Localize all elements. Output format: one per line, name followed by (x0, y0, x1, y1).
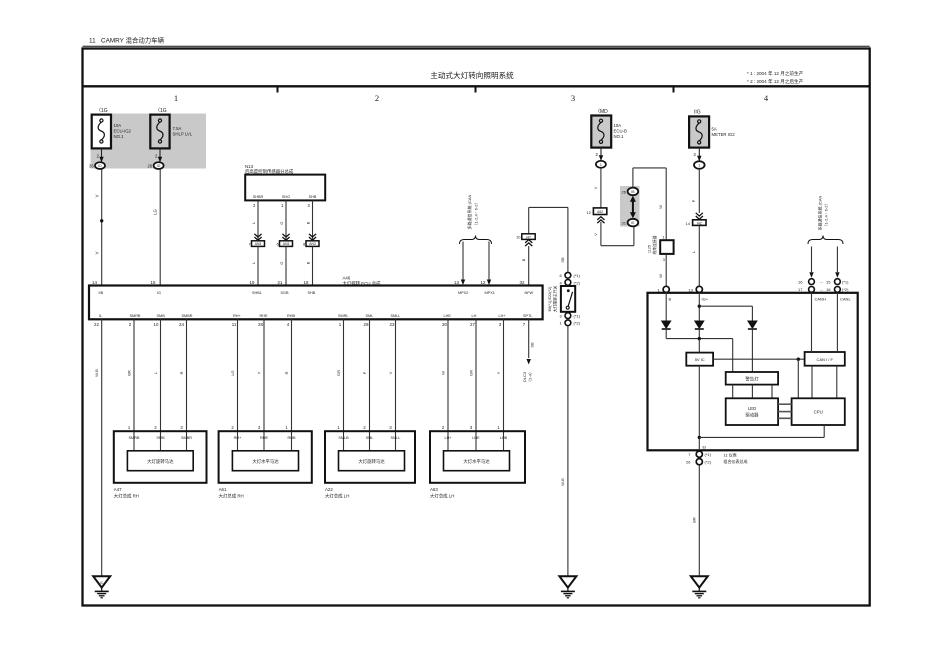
wire GR ECU pin 27 to level motor LH (469, 319, 477, 451)
CAN brace to A46 MPX pins (460, 194, 492, 244)
svg-text:大灯旋转马达: 大灯旋转马达 (147, 458, 174, 465)
LED driver block (726, 398, 778, 425)
connector 26(ID) (148, 162, 164, 169)
wire CAN arrow to MPX1 pin 12 (481, 242, 492, 286)
wire W-B ECU pin 22 to ground (94, 319, 102, 575)
svg-text:NO.1: NO.1 (614, 134, 625, 139)
fuse F3 ECU-B NO.1 (591, 109, 627, 148)
svg-text:22: 22 (94, 322, 99, 327)
svg-text:LHE: LHE (472, 436, 480, 440)
ECU A46 label (343, 276, 382, 288)
wire 5V IC to CAN I/F (713, 358, 805, 399)
svg-text:V: V (95, 251, 100, 254)
connector 1(IK) meter B (658, 286, 670, 292)
svg-text:Y: Y (496, 371, 501, 374)
svg-text:W: W (658, 274, 663, 278)
svg-text:10: 10 (154, 322, 159, 327)
connector 6 (*1) (560, 272, 581, 278)
wire B to diode 1 (665, 293, 667, 321)
svg-text:LH+: LH+ (444, 436, 452, 440)
connector 7(IL)(*1) below meter (688, 451, 711, 457)
svg-text:(*2): (*2) (574, 280, 581, 285)
svg-text:29: 29 (364, 322, 369, 327)
wire LG from ID to ECU pin 15 (151, 169, 161, 286)
svg-text:IL: IL (99, 314, 102, 318)
svg-text:(*2): (*2) (574, 321, 581, 326)
wire CANL into CAN I/F (836, 293, 838, 352)
combination meter box (648, 293, 858, 451)
lamp assy A61 RH leveling (219, 425, 312, 499)
lamp assy A47 RH swivel (114, 425, 207, 499)
svg-text:26: 26 (686, 460, 691, 465)
svg-text:LHB: LHB (500, 436, 508, 440)
svg-text:Y: Y (257, 371, 262, 374)
svg-text:大灯总成 RH: 大灯总成 RH (114, 492, 139, 499)
connector 36(ID) (89, 162, 105, 169)
wire NFW from ECU pin 32 up through I47 to switch (520, 207, 568, 285)
gray band IB-IE junction (620, 186, 640, 227)
svg-text:IC: IC (100, 581, 104, 585)
svg-text:GR: GR (469, 370, 474, 376)
svg-text:〈2-4〉: 〈2-4〉 (528, 370, 533, 384)
svg-text:RHB: RHB (287, 314, 295, 318)
CAN brace to meter (808, 195, 843, 244)
wire Y ECU pin 28 to level motor RH (257, 319, 265, 451)
svg-text:ECU-B: ECU-B (614, 129, 628, 134)
svg-text:AN3: AN3 (309, 242, 316, 246)
svg-text:11 CAMRY 混合动力车辆: 11 CAMRY 混合动力车辆 (89, 36, 165, 45)
wire N13 pin 3 to AN3 (305, 200, 316, 240)
svg-text:ID: ID (98, 164, 102, 168)
wire AN3 to ECU pin 21 (278, 246, 286, 285)
ECU bottom terminal labels (99, 314, 533, 318)
svg-text:* 2 : 2004 年 12 月之后生产: * 2 : 2004 年 12 月之后生产 (747, 78, 804, 85)
svg-text:21: 21 (278, 280, 283, 285)
svg-text:SMRB: SMRB (130, 314, 141, 318)
svg-text:大灯水平马达: 大灯水平马达 (463, 458, 490, 465)
svg-text:SPTL: SPTL (523, 314, 533, 318)
svg-text:驱动器: 驱动器 (746, 412, 760, 419)
svg-text:多路通信系统 (CAN: 多路通信系统 (CAN (817, 195, 823, 230)
wire R ECU pin 24 to lamp RH (179, 319, 187, 451)
svg-text:14: 14 (92, 280, 97, 285)
connector oval 1 col4 (694, 161, 705, 169)
svg-text:I42: I42 (697, 221, 702, 225)
svg-text:I47: I47 (526, 235, 531, 239)
svg-text:16: 16 (826, 287, 831, 292)
svg-text:主动式大灯转向照明系统: 主动式大灯转向照明系统 (430, 70, 514, 80)
svg-text:SGB: SGB (281, 291, 289, 295)
junction box 1125 (648, 235, 674, 254)
connector 7 AN3 (249, 241, 265, 247)
wire P ECU pin 29 to swivel motor LH (362, 319, 370, 451)
connector 3 (*1) below switch (560, 313, 581, 319)
svg-text:27: 27 (470, 322, 475, 327)
ground center (559, 576, 576, 598)
svg-text:SMBR: SMBR (181, 436, 192, 440)
svg-text:多路通信系统 (CAN: 多路通信系统 (CAN (466, 194, 472, 229)
svg-text:B: B (305, 261, 310, 264)
connector 6 AN3 (277, 241, 293, 247)
wire R ECU pin 4 to level motor RH (284, 319, 292, 451)
svg-text:SMRB: SMRB (129, 436, 140, 440)
svg-text:R: R (284, 371, 289, 374)
lamp assy A63 LH leveling (430, 425, 525, 499)
svg-text:SMLL: SMLL (391, 436, 401, 440)
connector 8 AN3 (303, 241, 319, 247)
wire fuse F2 pin 2 to connector ID (155, 148, 162, 162)
svg-text:组合仪表总成: 组合仪表总成 (724, 458, 748, 464)
svg-text:SMB: SMB (156, 436, 165, 440)
svg-text:P: P (691, 199, 696, 202)
svg-text:〈1-2,4・6-2〉: 〈1-2,4・6-2〉 (474, 201, 479, 228)
bus lines LED driver to CPU (778, 404, 792, 418)
svg-text:BR: BR (127, 370, 132, 376)
svg-text:大灯总成 LH: 大灯总成 LH (325, 492, 349, 499)
svg-text:16: 16 (798, 280, 803, 285)
svg-text:15: 15 (826, 280, 831, 285)
svg-text:A63: A63 (430, 487, 438, 492)
svg-text:1125: 1125 (648, 245, 652, 253)
svg-text:RHB: RHB (287, 436, 295, 440)
svg-text:W: W (658, 205, 663, 209)
svg-text:V: V (593, 233, 598, 236)
ECU top terminal labels (99, 291, 534, 295)
wire GR ECU pin 1 to swivel motor LH (336, 319, 344, 451)
svg-text:SML: SML (366, 436, 374, 440)
wire BR ECU pin 2 to lamp RH (127, 319, 135, 451)
svg-text:W-B: W-B (560, 478, 565, 486)
svg-text:(*2): (*2) (705, 460, 712, 465)
svg-text:CPU: CPU (814, 410, 823, 415)
meter terminal labels (669, 297, 852, 302)
diode D2 (695, 321, 704, 329)
wire W-B switch to ground (560, 326, 568, 575)
svg-text:26: 26 (148, 164, 153, 169)
svg-text:R: R (179, 371, 184, 374)
wire W from 1125 to meter pin 1 (658, 254, 666, 286)
svg-text:SB: SB (530, 342, 535, 348)
svg-text:(*1): (*1) (842, 280, 849, 285)
switch E8/E22 AFS main switch (548, 286, 575, 313)
svg-text:DLC3: DLC3 (522, 371, 527, 382)
svg-text:ID: ID (157, 164, 161, 168)
svg-text:SMLL: SMLL (391, 314, 401, 318)
svg-text:大灯水平马达: 大灯水平马达 (252, 458, 279, 465)
wire W from IB over to junction box 1125 (633, 168, 666, 240)
svg-text:P: P (362, 371, 367, 374)
warning lamp block (726, 372, 778, 385)
svg-text:32: 32 (520, 280, 525, 285)
wire L ECU pin 10 to lamp RH (153, 319, 161, 451)
svg-text:SMB: SMB (157, 314, 166, 318)
svg-text:W-B: W-B (94, 369, 99, 377)
svg-text:* 1 : 2004 年 12 月之前生产: * 1 : 2004 年 12 月之前生产 (747, 70, 804, 77)
svg-text:GR: GR (336, 370, 341, 376)
svg-text:ECU-IG2: ECU-IG2 (114, 129, 132, 134)
wire V from ID to ECU pin 14 (92, 169, 103, 286)
svg-text:SMBR: SMBR (182, 314, 193, 318)
svg-text:W: W (441, 371, 446, 375)
svg-text:A47: A47 (114, 487, 122, 492)
svg-text:B: B (669, 297, 672, 302)
svg-text:30: 30 (442, 322, 447, 327)
wire fuse F3 pin 2 to connector (596, 148, 604, 161)
svg-text:L: L (251, 221, 256, 224)
svg-text:LHE: LHE (444, 314, 452, 318)
diode D1 (662, 321, 671, 329)
svg-text:G: G (279, 221, 284, 224)
regulator 5V IC (686, 353, 713, 366)
ground right (691, 576, 708, 598)
svg-text:1: 1 (698, 164, 700, 168)
svg-text:LH+: LH+ (499, 314, 507, 318)
connector 14 I42 (686, 220, 707, 226)
svg-text:G: G (279, 261, 284, 264)
svg-text:B: B (521, 258, 526, 261)
svg-text:SHG: SHG (282, 195, 290, 199)
header underline (83, 45, 870, 47)
svg-text:A46: A46 (343, 276, 351, 281)
fuse F2 SHLP LVL (150, 108, 192, 148)
svg-text:B: B (305, 221, 310, 224)
wire CANH arrow (809, 247, 813, 278)
connector 12 A52 (587, 208, 607, 223)
svg-text:E8(*1),E22(*2): E8(*1),E22(*2) (548, 286, 552, 311)
svg-text:RH+: RH+ (233, 314, 241, 318)
ground IC left (93, 576, 110, 598)
svg-text:CAN I / F: CAN I / F (816, 357, 833, 362)
svg-text:A22: A22 (325, 487, 333, 492)
svg-text:L: L (251, 261, 256, 264)
svg-text:36: 36 (89, 164, 94, 169)
wire CANL arrow (835, 247, 839, 278)
wire CAN arrow to MPX2 pin 13 (454, 242, 465, 286)
svg-text:12: 12 (587, 210, 592, 215)
wire Y ECU pin 3 to level motor LH (496, 319, 504, 451)
connector oval 1 col3 (596, 161, 606, 168)
svg-text:31: 31 (622, 221, 627, 226)
svg-text:(*1): (*1) (574, 273, 581, 278)
connector 10 I47 (516, 234, 535, 240)
connector 4 (*2) (560, 280, 581, 286)
svg-text:〈MD: 〈MD (595, 109, 608, 115)
svg-text:IG: IG (157, 291, 161, 295)
gray harness band column 1 (91, 114, 207, 169)
wire V col3 corner to IE (593, 222, 634, 246)
svg-text:SML: SML (366, 314, 374, 318)
svg-text:EI: EI (703, 445, 707, 449)
svg-text:SHLP LVL: SHLP LVL (173, 132, 193, 137)
wire IG+ to diode 2 (698, 293, 753, 321)
svg-text:大灯摆转主开关: 大灯摆转主开关 (553, 286, 558, 313)
column tick 1|2 (277, 86, 279, 92)
svg-text:MPX2: MPX2 (458, 291, 468, 295)
svg-text:RHE: RHE (260, 436, 268, 440)
svg-text:LG: LG (153, 208, 158, 214)
wires warning lamp to LED driver (733, 385, 772, 399)
wire AN3 to ECU pin 18 (304, 246, 313, 285)
wire fuse F1 pin 2 to connector ID (97, 148, 104, 162)
svg-text:10: 10 (516, 234, 521, 239)
connector row 16(IK)--15(IJ)(*1) (798, 279, 849, 285)
svg-text:3: 3 (571, 93, 575, 103)
sensor N13 rear height control (245, 164, 325, 201)
svg-text:SB: SB (560, 257, 565, 263)
svg-text:〈1G: 〈1G (96, 108, 108, 114)
svg-text:5V IC: 5V IC (695, 357, 705, 362)
svg-text:11: 11 (232, 322, 237, 327)
wire SB from NFW corner down to switch (560, 207, 568, 271)
svg-text:警告灯: 警告灯 (745, 375, 759, 382)
svg-text:A61: A61 (219, 487, 227, 492)
svg-text:RHE: RHE (260, 314, 268, 318)
svg-text:LED: LED (748, 406, 756, 411)
svg-text:IIB: IIB (99, 291, 104, 295)
title separator line (83, 85, 870, 87)
svg-text:(*1): (*1) (574, 313, 581, 318)
meter name label (724, 452, 748, 465)
wire fuse F4 pin 2 to connector (694, 148, 702, 162)
ECU bottom pin numbers (94, 322, 526, 327)
svg-text:SHB: SHB (309, 195, 317, 199)
svg-text:〈1-2,4・6-2〉: 〈1-2,4・6-2〉 (824, 202, 829, 229)
svg-text:10A: 10A (114, 123, 122, 128)
wire SB ECU pin 7 SPTL to DLC3 (522, 319, 535, 384)
svg-text:19: 19 (250, 280, 255, 285)
connector row 17(IK)--16(IJ)(*2) (798, 287, 849, 293)
wire N13 pin 1 to AN3 (279, 200, 290, 240)
svg-text:SMRL: SMRL (338, 314, 349, 318)
fuse F4 METER IG2 (689, 110, 735, 148)
wire V col3 to A52 (593, 168, 601, 208)
connector 13(IK) meter IG+ (689, 286, 703, 292)
wire CANH into CAN I/F (811, 293, 813, 352)
svg-text:14: 14 (686, 221, 691, 226)
svg-text:N13: N13 (245, 164, 254, 169)
svg-text:17: 17 (798, 287, 803, 292)
svg-text:12: 12 (481, 280, 486, 285)
svg-text:MPX1: MPX1 (485, 291, 495, 295)
svg-text:CANH: CANH (815, 297, 826, 302)
svg-text:1: 1 (174, 93, 178, 103)
svg-text:24: 24 (179, 322, 184, 327)
svg-text:大灯总成 LH: 大灯总成 LH (430, 492, 454, 499)
column tick 2|3 (475, 86, 477, 92)
CPU block (792, 398, 845, 425)
svg-text:2: 2 (375, 93, 379, 103)
svg-text:〈1G: 〈1G (155, 108, 167, 114)
svg-text:METER IG2: METER IG2 (712, 132, 736, 137)
svg-text:11 仪表: 11 仪表 (724, 452, 737, 458)
wire 5V IC down to meter ground pin (698, 366, 825, 451)
svg-text:(*2): (*2) (842, 287, 849, 292)
wire P col4 to I42 (691, 169, 703, 219)
lamp assy A22 LH swivel (325, 425, 415, 499)
svg-text:SHBR: SHBR (253, 195, 264, 199)
svg-text:IIG: IIG (694, 110, 701, 116)
ECU A46 box (89, 286, 543, 320)
svg-text:SHB: SHB (308, 291, 316, 295)
svg-text:10A: 10A (614, 123, 622, 128)
connector 26(IM)(*2) below meter (686, 459, 712, 465)
svg-text:7.5A: 7.5A (173, 126, 182, 131)
svg-text:V: V (388, 371, 393, 374)
svg-text:线束连接器: 线束连接器 (652, 235, 657, 254)
wire diode rail to 5V IC (666, 328, 752, 372)
connector 31(IE) (622, 219, 639, 227)
CAN I/F block (805, 352, 845, 366)
svg-text:1: 1 (600, 163, 602, 167)
svg-text:大灯总成 RH: 大灯总成 RH (219, 492, 244, 499)
svg-text:IG+: IG+ (702, 297, 709, 302)
diode D3 (748, 321, 757, 329)
svg-text:SHBL: SHBL (252, 291, 262, 295)
svg-text:(*1): (*1) (705, 452, 712, 457)
svg-text:SMLB: SMLB (338, 436, 349, 440)
svg-text:RH+: RH+ (234, 436, 242, 440)
svg-text:LH: LH (472, 314, 477, 318)
svg-text:NFW: NFW (525, 291, 534, 295)
wire AN3 to ECU pin 19 (250, 246, 258, 285)
svg-text:AN3: AN3 (255, 242, 262, 246)
svg-text:BR: BR (692, 517, 697, 523)
svg-text:13: 13 (689, 287, 694, 292)
column tick 3|4 (673, 86, 675, 92)
connector 26(IB) (622, 188, 639, 196)
svg-text:V: V (593, 186, 598, 189)
wire CAN I/F to CPU (812, 366, 837, 399)
svg-text:V: V (95, 194, 100, 197)
connector 1 (*2) below switch (560, 320, 581, 326)
outer frame (83, 49, 870, 606)
svg-text:26: 26 (622, 189, 627, 194)
svg-text:28: 28 (258, 322, 263, 327)
wire W ECU pin 30 to level motor LH (441, 319, 449, 451)
junction arrow IE to IB (630, 196, 636, 219)
svg-text:15: 15 (151, 280, 156, 285)
wire LG ECU pin 11 to level motor RH (230, 319, 238, 451)
svg-text:大灯旋转马达: 大灯旋转马达 (358, 458, 385, 465)
wire N13 pin 2 to AN3 (251, 200, 262, 240)
svg-text:CANL: CANL (840, 297, 851, 302)
svg-text:AN3: AN3 (283, 242, 290, 246)
svg-text:5A: 5A (712, 127, 717, 132)
wire BR meter to ground (692, 465, 700, 575)
wire V ECU pin 23 to swivel motor LH (388, 319, 396, 451)
svg-text:13: 13 (454, 280, 459, 285)
svg-text:A52: A52 (597, 210, 603, 214)
svg-text:23: 23 (390, 322, 395, 327)
fuse F1 ECU-IG2 NO.1 (92, 108, 132, 148)
svg-text:18: 18 (304, 280, 309, 285)
svg-text:NO.1: NO.1 (114, 134, 125, 139)
svg-text:LG: LG (230, 370, 235, 375)
wire L from I42 to meter pin 13 (691, 225, 700, 286)
